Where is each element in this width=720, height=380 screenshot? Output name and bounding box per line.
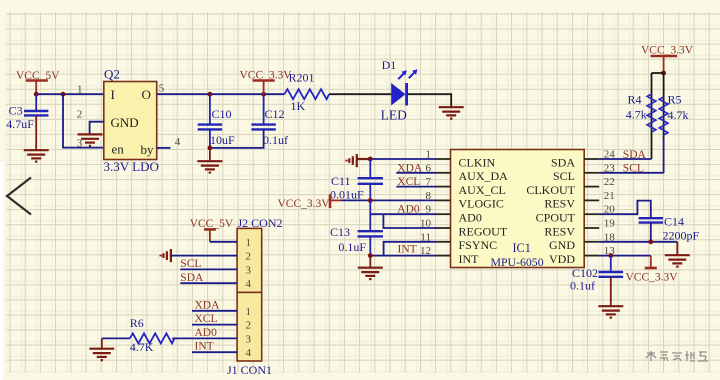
junction dot [368,253,373,258]
J2 pin numbers [246,237,252,290]
wire CLKIN [370,158,435,160]
wire R5 lead (straight through body) [663,73,665,140]
svg-text:2200pF: 2200pF [663,228,700,242]
svg-text:XCL: XCL [397,176,420,188]
power port VCC_5V (J2) [190,218,234,242]
svg-text:R4: R4 [628,92,642,106]
wire VDD pin 13 [599,255,651,257]
power port VCC_3.3V (C12) [240,70,293,95]
svg-text:C10: C10 [212,107,232,121]
resistor R6 4.7K [130,316,175,354]
wire crossbar to R4 [652,72,664,74]
svg-text:AD0: AD0 [397,203,420,215]
svg-text:3.3V LDO: 3.3V LDO [104,159,159,174]
resistor R5 4.7k [659,92,688,135]
svg-text:0.1uf: 0.1uf [263,133,288,147]
svg-text:FSYNC: FSYNC [459,238,498,252]
svg-text:RESV: RESV [544,197,575,211]
ground under C3 [24,150,49,161]
svg-text:AUX_DA: AUX_DA [459,169,509,183]
svg-text:J1 CON1: J1 CON1 [227,363,272,377]
svg-text:O: O [142,87,151,102]
svg-text:VLOGIC: VLOGIC [459,197,504,211]
net label SDA / wire J2 pin 4 [180,282,237,284]
svg-text:2: 2 [246,251,252,263]
wire step INT to FSYNC pin 11 [384,242,436,256]
wire R5 bottom to SCL [663,138,665,173]
junction dot [661,71,666,76]
svg-text:4: 4 [246,347,252,359]
svg-text:C12: C12 [265,107,285,121]
power port VCC_3.3V (pull-ups) [641,45,694,74]
ground at R6 [89,349,114,360]
ground at Q2 pin 2 [78,134,103,145]
junction dot [61,92,66,97]
svg-text:C11: C11 [331,174,351,188]
wire LED cathode to ground [408,94,452,107]
svg-text:VCC_3.3V: VCC_3.3V [626,272,679,284]
junction dot [208,92,213,97]
svg-text:3: 3 [246,333,252,345]
svg-text:2: 2 [77,109,83,121]
svg-text:GND: GND [549,238,575,252]
svg-text:19: 19 [604,218,616,230]
svg-text:Q2: Q2 [104,67,120,82]
svg-text:CLKIN: CLKIN [459,155,496,169]
junction dot [368,157,373,162]
svg-text:4: 4 [175,136,181,148]
svg-text:1K: 1K [291,99,306,113]
svg-text:I: I [111,87,115,102]
net label INT / wire pin 12 [370,255,435,257]
svg-text:5: 5 [159,83,165,95]
svg-text:INT: INT [398,243,417,255]
capacitor C102 0.1uf [570,256,623,306]
junction dot [368,198,373,203]
net label AD0 / wire J1 pin 3 [172,337,237,339]
wire R4 lead (straight through body) [651,73,653,159]
net label SCL / wire J2 pin 3 [180,268,237,270]
net label INT / wire J1 pin 4 [192,351,237,353]
junction dot [34,92,39,97]
svg-text:4: 4 [246,278,252,290]
junction dot [261,92,266,97]
back arrow chevron [7,178,31,215]
net label AD0 / wire pin 9 [370,213,435,215]
resistor R201 1K [284,70,329,113]
wire J2 pin 2 [171,255,237,257]
svg-text:SCL: SCL [623,163,644,175]
svg-text:XDA: XDA [195,299,221,311]
wire VCC_5V rail to Q2 pin 1 [36,93,104,95]
wire step AD0 to REGOUT pin 10 [383,214,435,228]
Q2 pin 2 stub to ground [90,122,104,134]
svg-text:22: 22 [604,176,615,188]
wire R6 left [102,337,130,339]
junction dot [608,253,613,258]
IC1 left pin numbers [420,149,432,258]
svg-text:CLKOUT: CLKOUT [526,183,575,197]
svg-text:RESV: RESV [544,224,575,238]
svg-text:0.1uf: 0.1uf [570,278,595,292]
ground stub under C13 [369,256,371,268]
svg-text:SDA: SDA [623,149,647,161]
capacitor C13 0.1uF [330,200,383,255]
svg-text:R5: R5 [668,92,682,106]
svg-text:LED: LED [381,107,407,122]
white page edge strip [0,162,3,380]
svg-text:en: en [112,142,125,157]
power port VCC_3.3V (VDD, downward) [626,256,679,284]
svg-text:VCC_3.3V: VCC_3.3V [278,198,331,210]
IC1 left pin stubs 1,6,7,8,9,10,11,12 [436,159,451,256]
net label XCL / wire J1 pin 2 [192,324,237,326]
svg-text:REGOUT: REGOUT [459,224,508,238]
ground under C10 [197,161,222,172]
svg-text:4.7k: 4.7k [626,108,647,122]
Q2 pin 4 stub (by, unconnected) [157,147,171,149]
ground at pin 18 [665,255,690,266]
svg-text:SCL: SCL [180,258,201,270]
svg-text:AUX_CL: AUX_CL [459,183,506,197]
svg-text:R6: R6 [130,316,144,330]
net label XDA / wire pin 6 [396,172,435,174]
capacitor C10 10uF [198,94,235,148]
wire SDA pin 24 [599,158,651,160]
ground stub pin 18 [676,242,678,255]
svg-text:R201: R201 [289,70,315,84]
wire Q2 output to R201 [157,93,285,95]
svg-text:IC1: IC1 [513,241,531,255]
wire SCL pin 23 [599,172,663,174]
wire CPOUT pin 20 jog to C14 [599,201,651,218]
svg-text:SCL: SCL [553,169,575,183]
svg-text:2: 2 [246,320,252,332]
junction dot [208,146,213,151]
capacitor C12 0.1uf [251,94,288,147]
svg-text:1: 1 [77,84,83,96]
LED D1 [381,58,418,123]
IC IC1 MPU-6050 [451,150,585,269]
ground (sideways) at J2 pin 2 [161,249,171,262]
power port VCC_5V [16,70,60,94]
wire en loop: pin1 net down to en pin [63,94,104,147]
IC1 right pin stubs 24,23,22,21,20,19,18,13 [584,159,599,256]
svg-text:by: by [141,142,155,157]
net label XDA / wire J1 pin 1 [192,310,237,312]
regulator Q2 3.3V LDO [104,67,159,174]
svg-text:GND: GND [111,115,139,130]
svg-text:INT: INT [459,252,480,266]
svg-text:4.7K: 4.7K [130,340,154,354]
svg-text:VDD: VDD [549,252,575,266]
net label XCL / wire pin 7 [396,186,435,188]
wire R201 to LED anode [329,93,391,95]
ground (sideways) at CLKIN [347,154,371,167]
IC1 right pin names [526,155,575,266]
svg-text:4.7uF: 4.7uF [6,117,34,131]
connector J1 CON1 [227,292,272,377]
svg-text:C13: C13 [330,225,350,239]
capacitor C11 0.01uF [330,159,383,202]
ground at LED [439,107,464,118]
svg-text:INT: INT [195,341,214,353]
capacitor C3 4.7uF [6,94,48,150]
ground stub at R6 [101,338,103,348]
svg-text:XCL: XCL [195,313,218,325]
svg-text:SDA: SDA [180,272,204,284]
svg-text:1: 1 [246,306,252,318]
svg-text:J2 CON2: J2 CON2 [238,216,283,230]
wire J2 pin 1 [210,241,237,243]
svg-text:0.1uF: 0.1uF [338,240,366,254]
svg-text:AD0: AD0 [195,327,218,339]
power port VCC_3.3V (VLOGIC) [278,194,342,209]
svg-text:SDA: SDA [551,155,575,169]
IC1 right pin numbers [604,149,616,258]
capacitor C14 2200pF [639,215,700,243]
svg-text:1: 1 [246,237,252,249]
junction dot [648,239,653,244]
connector J2 CON2 [237,216,282,292]
wire C10 bottom to C12 bottom [210,129,264,148]
svg-text:C3: C3 [9,104,23,118]
svg-text:MPU-6050: MPU-6050 [491,255,544,269]
ground under C102 [598,306,623,317]
ground under C13 [358,268,383,279]
IC1 left pin names [459,155,509,266]
svg-text:CPOUT: CPOUT [536,211,576,225]
svg-text:10uF: 10uF [210,133,235,147]
svg-text:XDA: XDA [397,162,423,174]
svg-text:AD0: AD0 [459,211,482,225]
svg-text:21: 21 [604,190,615,202]
J1 pin numbers [246,306,252,359]
ground stub under C10 [209,148,211,161]
svg-text:4.7k: 4.7k [668,108,689,122]
wire GND pin 18 [599,241,677,243]
svg-text:C14: C14 [664,215,684,229]
resistor R4 4.7k [626,92,656,132]
watermark 华为云社区 (drawn strokes) [646,351,708,361]
svg-text:3: 3 [246,264,252,276]
svg-text:D1: D1 [382,58,397,72]
wire VLOGIC [341,199,436,201]
